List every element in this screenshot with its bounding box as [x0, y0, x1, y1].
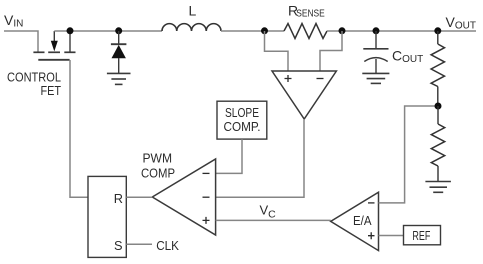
- pin + noninverting: [285, 75, 292, 82]
- wire latch R to PWM comp output: [126, 196, 152, 198]
- node COUT: [373, 27, 380, 34]
- node switch (drain): [67, 27, 74, 34]
- pin - slope comp input: [203, 172, 210, 174]
- box SLOPE COMP: [217, 101, 267, 139]
- resistor RSENSE: [284, 24, 327, 39]
- diode D1 catch diode: [111, 31, 127, 73]
- svg-text:S: S: [114, 238, 123, 253]
- wire feedback divider to E/A minus: [379, 106, 439, 203]
- node inductor-RSENSE: [261, 27, 268, 34]
- resistor R2 divider bottom: [431, 106, 444, 181]
- op-amp PWM comparator: [152, 159, 215, 235]
- node RSENSE out: [339, 27, 346, 34]
- transistor Q1 CONTROL FET: [33, 31, 75, 60]
- wire CS amp output to PWM comp minus: [216, 119, 304, 197]
- wire VC E/A output to PWM comp plus: [216, 219, 331, 221]
- wire gate drive to latch: [70, 60, 88, 197]
- pin - inverting: [317, 78, 324, 80]
- svg-text:CLK: CLK: [156, 238, 179, 253]
- svg-text:R: R: [114, 191, 123, 206]
- wire E/A plus to REF: [379, 235, 404, 237]
- wire slope comp to PWM comp: [216, 139, 242, 173]
- node diode: [115, 27, 122, 34]
- box REF: [404, 226, 441, 245]
- pin - inverting: [368, 202, 375, 204]
- body contact bar: [48, 51, 60, 53]
- body stub: [53, 31, 55, 42]
- ground (divider): [425, 182, 451, 193]
- inductor L: [162, 24, 221, 31]
- body diode arrow: [51, 41, 58, 52]
- node VOUT divider top: [434, 27, 441, 34]
- svg-text:SENSE: SENSE: [296, 8, 325, 19]
- gate bar: [38, 59, 69, 61]
- wire rail RSENSE to VOUT: [327, 30, 476, 32]
- svg-text:L: L: [189, 2, 197, 18]
- resistor R1 divider top: [431, 31, 444, 106]
- ground (COUT): [362, 73, 389, 83]
- wire sense right to CS amp -: [320, 31, 342, 71]
- svg-text:REF: REF: [412, 228, 430, 243]
- svg-text:COMP.: COMP.: [224, 119, 261, 134]
- wire top rail switch node: [54, 30, 162, 32]
- svg-text:COMP: COMP: [141, 165, 175, 180]
- svg-text:SLOPE: SLOPE: [225, 105, 259, 120]
- wire rail L to RSENSE: [221, 30, 284, 32]
- drain contact bar: [64, 51, 75, 53]
- pin + VC input: [203, 217, 210, 224]
- svg-text:E/A: E/A: [353, 213, 372, 228]
- drain stub: [69, 32, 71, 52]
- ground (diode): [107, 73, 131, 84]
- box latch R S: [88, 176, 126, 257]
- wire sense left to CS amp +: [265, 31, 289, 71]
- pin - current sense input: [203, 196, 210, 198]
- pin + noninverting: [368, 232, 375, 239]
- capacitor COUT: [363, 31, 388, 73]
- svg-text:PWM: PWM: [143, 150, 173, 165]
- wire VIN to FET source: [4, 31, 38, 52]
- source contact bar: [33, 51, 44, 53]
- wire latch S to CLK: [126, 243, 152, 245]
- node feedback: [435, 103, 442, 110]
- op-amp U1 current sense amplifier: [272, 71, 336, 119]
- op-amp E/A error amplifier: [331, 192, 379, 250]
- svg-text:FET: FET: [41, 83, 62, 98]
